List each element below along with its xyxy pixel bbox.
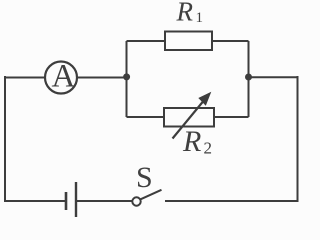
- svg-text:2: 2: [204, 139, 213, 158]
- svg-text:R: R: [176, 0, 194, 27]
- svg-text:A: A: [52, 59, 76, 95]
- svg-text:S: S: [136, 161, 153, 194]
- svg-text:1: 1: [196, 10, 204, 26]
- svg-text:R: R: [182, 125, 201, 158]
